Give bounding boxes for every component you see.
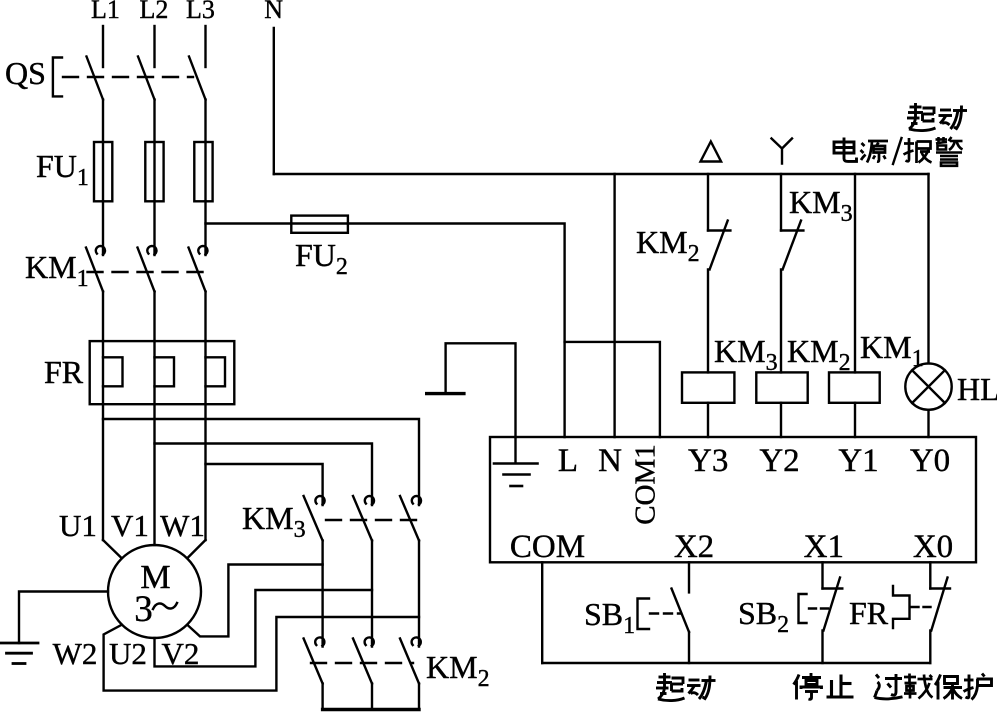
svg-text:COM: COM xyxy=(510,529,585,565)
PLC box xyxy=(490,437,976,562)
svg-text:X1: X1 xyxy=(804,529,844,565)
label tingzhi (stop) xyxy=(794,673,854,700)
wire X2 drop xyxy=(688,562,690,592)
svg-text:3: 3 xyxy=(134,589,153,630)
contactor KM3 pole 1 xyxy=(304,496,325,541)
wire Y1 branch to KM1 coil xyxy=(854,174,856,372)
contactor KM2 pole 1 xyxy=(304,637,325,683)
svg-text:X0: X0 xyxy=(913,529,953,565)
wire SB1 to bus xyxy=(688,632,690,663)
ground PLC earth terminal xyxy=(494,437,538,486)
wire FU1 to KM1 phase 2 xyxy=(153,201,155,255)
svg-text:U2: U2 xyxy=(109,636,147,671)
svg-text:L: L xyxy=(558,443,578,479)
motor M terminal slant U1 xyxy=(103,540,122,558)
switch QS pole 1 blade xyxy=(87,57,104,100)
switch QS pole 2 blade xyxy=(138,57,155,100)
wire L2 drop to QS xyxy=(153,26,155,67)
switch QS linkage dashed bar xyxy=(63,76,193,78)
star symbol Y xyxy=(772,139,793,164)
label dianyuan/baojing (power/alarm) xyxy=(834,137,963,166)
wire Y2 branch upper xyxy=(780,174,782,231)
wire N bus drop to PLC N terminal xyxy=(613,174,615,437)
svg-text:V1: V1 xyxy=(111,508,149,543)
relay FR heater element 2 xyxy=(155,341,175,404)
svg-text:KM2: KM2 xyxy=(787,333,851,376)
contact KM3 NC (tick and blade) xyxy=(781,221,803,270)
button SB1 NO blade xyxy=(672,589,690,633)
button SB1 actuator xyxy=(638,599,682,630)
wire KM3 pole3 to KM2 pole3 xyxy=(418,541,420,647)
contactor KM1 pole 2 xyxy=(138,246,157,291)
contact FR NC xyxy=(930,578,950,631)
wire KM3 pole1 to KM2 pole1 xyxy=(321,541,323,647)
label qidong (start) top right xyxy=(907,103,967,131)
wire L3 drop to QS xyxy=(204,26,206,67)
coil KM1 xyxy=(829,372,880,402)
wire FR to motor V1 (junction y=443.5) xyxy=(153,404,155,545)
motor M circle xyxy=(108,545,201,638)
svg-text:KM3: KM3 xyxy=(789,184,853,227)
svg-text:Y2: Y2 xyxy=(759,443,799,479)
svg-text:W2: W2 xyxy=(53,636,98,671)
relay FR heater element 3 xyxy=(206,341,226,404)
wire KM2 outputs to star bar xyxy=(323,684,419,710)
svg-text:QS: QS xyxy=(5,55,46,91)
wire phase2 feed to KM3 pole 2 xyxy=(155,444,373,506)
wire QS to FU1 phase 2 xyxy=(153,100,155,143)
wire KM3 contact to KM2 coil xyxy=(780,269,782,372)
svg-text:FR: FR xyxy=(44,354,84,390)
wire L1 drop to QS xyxy=(102,26,104,67)
coil KM3 xyxy=(682,372,734,402)
button SB2 NC contact xyxy=(823,578,843,631)
svg-text:L1: L1 xyxy=(91,0,120,24)
svg-text:HL: HL xyxy=(957,371,997,407)
fuse FU1 pole 2 xyxy=(145,142,163,201)
svg-text:U1: U1 xyxy=(59,508,97,543)
wire KM1 to FR phase 1 xyxy=(102,292,104,342)
svg-text:KM3: KM3 xyxy=(242,500,306,543)
svg-text:KM1: KM1 xyxy=(25,249,89,292)
contactor KM2 pole 2 xyxy=(353,637,374,683)
wire X0 drop xyxy=(929,562,931,588)
ground chassis symbol xyxy=(427,392,464,395)
wire QS to FU1 phase 1 xyxy=(102,100,104,143)
svg-text:KM3: KM3 xyxy=(714,333,778,376)
label guozai baohu (overload protection) xyxy=(875,674,992,700)
wire SB2 to bus xyxy=(821,631,823,664)
svg-text:FR: FR xyxy=(849,595,889,631)
svg-text:COM1: COM1 xyxy=(630,444,662,525)
contactor KM2 linkage dashed bar xyxy=(311,662,413,664)
contactor KM1 pole 1 xyxy=(86,246,105,291)
wire FR contact to bus xyxy=(929,631,931,664)
relay FR heater element 1 xyxy=(103,341,123,404)
wire KM1 to FR phase 3 xyxy=(204,292,206,342)
contactor KM2 pole 3 xyxy=(400,637,421,683)
wire FR to motor W1 (junction y=464) xyxy=(204,404,206,540)
wire phase3 feed to KM3 pole 1 xyxy=(206,464,323,505)
svg-text:Y3: Y3 xyxy=(688,443,728,479)
wire QS to FU1 phase 3 xyxy=(204,100,206,143)
coil KM2 xyxy=(756,372,807,402)
svg-text:SB1: SB1 xyxy=(584,596,635,639)
contactor KM3 pole 3 xyxy=(400,496,421,541)
wire X1 drop xyxy=(821,562,823,588)
svg-text:KM1: KM1 xyxy=(860,329,924,372)
relay FR thermal overload box xyxy=(90,341,235,404)
wire FU2 to PLC L terminal xyxy=(348,224,565,438)
wire FU1 to KM1 phase 1 xyxy=(102,201,104,255)
svg-text:N: N xyxy=(598,443,622,479)
motor 3~ label xyxy=(134,589,177,630)
fuse FU2 xyxy=(291,216,348,233)
svg-text:FU1: FU1 xyxy=(36,148,89,191)
wire motor frame to earth xyxy=(19,592,108,644)
switch QS linkage bracket xyxy=(53,58,62,97)
svg-text:KM2: KM2 xyxy=(636,224,700,267)
contact KM2 NC (tick and blade) xyxy=(708,221,730,270)
contact FR actuator bracket xyxy=(893,586,934,628)
wire lamp to PLC Y0 xyxy=(927,410,929,437)
wire FR to motor U1 (junction y=419) xyxy=(102,404,104,540)
wire input common bus xyxy=(542,662,930,664)
wire COM drop xyxy=(541,562,543,663)
motor M terminal slant W1 xyxy=(187,540,205,558)
wire FU2 branch from L3 xyxy=(206,222,292,224)
svg-text:W1: W1 xyxy=(160,508,205,543)
svg-text:SB2: SB2 xyxy=(738,595,789,638)
fuse FU1 pole 3 xyxy=(194,142,212,201)
switch QS pole 3 blade xyxy=(189,57,206,100)
fuse FU1 pole 1 xyxy=(94,142,112,201)
wire star point bar xyxy=(323,708,419,711)
wire FU1 to KM1 phase 3 (FU2 tap at y=223.5) xyxy=(204,201,206,255)
svg-text:X2: X2 xyxy=(674,529,714,565)
label qidong (start) bottom xyxy=(656,673,716,701)
wire L branch to COM1 terminal xyxy=(565,342,660,437)
wire N drop to bus xyxy=(273,28,275,174)
wire KM3 coil to PLC Y3 xyxy=(707,403,709,437)
svg-text:FU2: FU2 xyxy=(295,237,348,280)
svg-text:L2: L2 xyxy=(140,0,169,24)
contactor KM1 pole 3 xyxy=(189,246,208,291)
svg-text:Y0: Y0 xyxy=(910,443,950,479)
wire KM2 coil to PLC Y2 xyxy=(780,403,782,437)
delta symbol xyxy=(701,142,722,162)
svg-text:KM2: KM2 xyxy=(426,649,490,692)
svg-text:L3: L3 xyxy=(186,0,215,24)
ground earth symbol left xyxy=(1,643,38,664)
wire N bus horizontal xyxy=(274,173,929,175)
contactor KM3 pole 2 xyxy=(353,496,374,541)
svg-text:Y1: Y1 xyxy=(838,443,878,479)
contactor KM3 linkage dashed bar xyxy=(326,519,421,521)
wire KM1 coil to PLC Y1 xyxy=(854,403,856,437)
wire Y3 branch upper xyxy=(707,174,709,231)
wire phase1 feed to KM3 pole 3 xyxy=(103,419,419,505)
wire KM3 pole2 to KM2 pole2 xyxy=(371,541,373,647)
wire motor W2 to KM3/KM2 junction 3 xyxy=(104,617,419,691)
wire KM2 contact to KM3 coil xyxy=(707,269,709,372)
wire KM1 to FR phase 2 xyxy=(153,292,155,342)
wire motor V2 to KM3/KM2 junction 1 xyxy=(187,565,322,637)
wire chassis ground riser xyxy=(446,343,516,437)
button SB2 actuator xyxy=(799,594,829,623)
wire motor U2 to KM3/KM2 junction 2 xyxy=(155,590,373,666)
contactor KM1 linkage dashed bar xyxy=(88,271,204,273)
lamp HL xyxy=(905,363,951,409)
wire Y0 branch to lamp xyxy=(927,174,929,363)
svg-text:N: N xyxy=(264,0,283,24)
